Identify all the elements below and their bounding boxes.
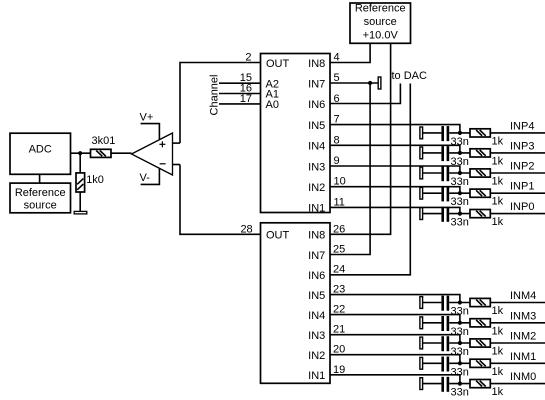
resistor 1k INM3 row <box>470 319 504 338</box>
wire connector to capacitor INM0 row <box>423 383 442 385</box>
wire mux pin row to INP1 filter junction <box>330 187 460 194</box>
connector pinhead INP1 row <box>420 187 423 199</box>
wire resistor to INP0 port <box>490 213 545 215</box>
wire capacitor to junction INM0 row <box>449 383 470 385</box>
wire ADC output to node <box>71 152 91 154</box>
capacitor 33n INP2 row <box>443 166 469 188</box>
wire mux pin row to INM0 filter junction <box>330 375 460 384</box>
svg-text:IN4: IN4 <box>308 310 325 322</box>
svg-text:Reference: Reference <box>15 187 66 199</box>
junction dot INM1 row <box>458 361 462 365</box>
wire resistor to INP2 port <box>490 172 545 174</box>
resistor 1k INP0 row <box>470 210 504 229</box>
wire mux pin row to INM3 filter junction <box>330 315 460 323</box>
svg-text:to DAC: to DAC <box>392 70 428 82</box>
wire capacitor to junction INP3 row <box>449 152 470 154</box>
svg-text:IN7: IN7 <box>308 250 325 262</box>
wire connector to capacitor INP2 row <box>423 172 442 174</box>
wire capacitor to junction INP2 row <box>449 172 470 174</box>
wire capacitor to junction INM4 row <box>449 302 470 304</box>
V+ label <box>140 112 160 140</box>
wire A2 pin 15 <box>219 82 261 84</box>
svg-text:source: source <box>24 200 57 212</box>
wire mux pin row to INM4 filter junction <box>330 295 460 303</box>
wire A0 pin 17 <box>219 103 261 105</box>
connector pinhead INP3 row <box>420 147 423 159</box>
connector pinhead INP0 row <box>420 208 423 220</box>
connector pinhead INP4 row <box>420 127 423 139</box>
svg-text:ADC: ADC <box>29 144 52 156</box>
svg-text:INM3: INM3 <box>510 310 536 322</box>
svg-text:2: 2 <box>245 52 251 64</box>
wire reference source to U1 IN8 pin 4 <box>330 43 370 62</box>
junction dot INM3 row <box>458 321 462 325</box>
junction dot INP0 row <box>458 212 462 216</box>
capacitor 33n INP0 row <box>443 207 469 229</box>
capacitor 33n INP4 row <box>443 126 469 148</box>
wire connector to capacitor INM2 row <box>423 342 442 344</box>
junction dot INP4 row <box>458 131 462 135</box>
resistor 1k INM0 row <box>470 380 504 399</box>
resistor 1k INM1 row <box>470 359 504 378</box>
wire +10V reference to U2 IN8 pin 26 <box>330 43 391 234</box>
wire capacitor to junction INP4 row <box>449 132 470 134</box>
svg-text:1k: 1k <box>492 366 504 378</box>
svg-text:33n: 33n <box>451 196 469 208</box>
svg-text:INM1: INM1 <box>510 351 536 363</box>
svg-text:3k01: 3k01 <box>92 135 116 147</box>
wire capacitor to junction INP1 row <box>449 192 470 194</box>
svg-text:IN3: IN3 <box>308 161 325 173</box>
resistor 1k0 <box>76 173 104 192</box>
resistor 1k INP1 row <box>470 189 504 208</box>
svg-text:OUT: OUT <box>266 230 290 242</box>
wire U1 IN7 pin 5 to connector <box>330 82 378 84</box>
svg-text:Reference: Reference <box>355 3 406 15</box>
wire connector to capacitor INM3 row <box>423 322 442 324</box>
svg-text:26: 26 <box>333 223 345 235</box>
wire mux pin row to INM2 filter junction <box>330 335 460 343</box>
svg-text:INM4: INM4 <box>510 290 536 302</box>
svg-text:A0: A0 <box>266 99 279 111</box>
svg-text:17: 17 <box>240 93 252 105</box>
resistor 1k INP3 row <box>470 149 504 168</box>
svg-text:OUT: OUT <box>266 58 290 70</box>
multiplexer U1 (top half) <box>261 54 331 215</box>
svg-text:source: source <box>364 16 397 28</box>
svg-text:V-: V- <box>140 172 151 184</box>
svg-text:IN3: IN3 <box>308 330 325 342</box>
junction dot INP3 row <box>458 151 462 155</box>
capacitor 33n INM2 row <box>443 336 469 358</box>
V- label <box>140 168 160 184</box>
wire connector to capacitor INP3 row <box>423 152 442 154</box>
junction dot INP1 row <box>458 191 462 195</box>
connector pinhead INM4 row <box>420 297 423 309</box>
svg-text:IN8: IN8 <box>308 58 325 70</box>
wire capacitor to junction INM1 row <box>449 362 470 364</box>
svg-text:33n: 33n <box>451 217 469 229</box>
connector pinhead IN7 <box>378 77 381 89</box>
wire 3k01 to op-amp <box>111 152 132 154</box>
wire node down to 1k0 <box>79 153 81 173</box>
svg-text:1k: 1k <box>492 155 504 167</box>
node junction dot <box>78 151 82 155</box>
wire A1 pin 16 <box>219 93 261 95</box>
svg-text:1k: 1k <box>492 305 504 317</box>
svg-text:IN6: IN6 <box>308 99 325 111</box>
svg-text:1k: 1k <box>492 196 504 208</box>
junction dot INM0 row <box>458 382 462 386</box>
wire to-DAC stub to U1 IN6 pin 6 <box>330 84 400 104</box>
wire ADC to reference source <box>39 174 41 183</box>
capacitor 33n INP3 row <box>443 146 469 168</box>
svg-text:IN2: IN2 <box>308 350 325 362</box>
svg-text:IN5: IN5 <box>308 120 325 132</box>
svg-text:1k: 1k <box>492 325 504 337</box>
svg-text:INP4: INP4 <box>510 120 534 132</box>
wire mux pin row to INP0 filter junction <box>330 207 460 213</box>
wire resistor to INM2 port <box>490 342 545 344</box>
wire resistor to INP4 port <box>490 132 545 134</box>
junction dot INM4 row <box>458 300 462 304</box>
svg-text:+10.0V: +10.0V <box>363 30 399 42</box>
connector pinhead INM1 row <box>420 357 423 369</box>
svg-text:INP2: INP2 <box>510 161 534 173</box>
wire mux pin row to INM1 filter junction <box>330 355 460 364</box>
capacitor 33n INP1 row <box>443 186 469 208</box>
svg-text:IN6: IN6 <box>308 270 325 282</box>
resistor 1k INP4 row <box>470 129 504 148</box>
svg-text:1k0: 1k0 <box>86 174 104 186</box>
resistor 3k01 <box>91 135 116 157</box>
resistor 1k INM4 row <box>470 298 504 317</box>
connector pinhead INM2 row <box>420 337 423 349</box>
svg-text:INP0: INP0 <box>510 201 534 213</box>
capacitor 33n INM1 row <box>443 357 469 379</box>
ADC reference source box <box>10 183 71 213</box>
wire connector to capacitor INP4 row <box>423 132 442 134</box>
wire IN7 node to U2 IN7 pin 25 <box>330 83 370 255</box>
ground <box>74 211 87 214</box>
capacitor 33n INM4 row <box>443 296 469 318</box>
connector pinhead INM0 row <box>420 378 423 390</box>
wire capacitor to junction INM2 row <box>449 342 470 344</box>
wire resistor to INM3 port <box>490 322 545 324</box>
junction dot IN7 node <box>368 81 372 85</box>
wire resistor to INM0 port <box>490 383 545 385</box>
svg-text:INP3: INP3 <box>510 140 534 152</box>
svg-text:1k: 1k <box>492 176 504 188</box>
svg-text:1k: 1k <box>492 346 504 358</box>
wire resistor to INM1 port <box>490 362 545 364</box>
wire op-amp + input to U1 OUT pin 2 <box>180 63 261 144</box>
Reference source +10.0V box <box>350 3 411 44</box>
wire mux pin row to INP2 filter junction <box>330 166 460 173</box>
svg-text:1k: 1k <box>492 216 504 228</box>
wire 1k0 to ground <box>79 192 81 211</box>
svg-text:IN4: IN4 <box>308 141 325 153</box>
capacitor 33n INM0 row <box>443 377 469 399</box>
svg-text:INP1: INP1 <box>510 181 534 193</box>
connector pinhead INM3 row <box>420 317 423 329</box>
svg-text:IN8: IN8 <box>308 230 325 242</box>
wire op-amp - input to U2 OUT pin 28 <box>180 165 261 235</box>
svg-text:INM2: INM2 <box>510 331 536 343</box>
ADC box <box>10 133 71 174</box>
svg-text:IN2: IN2 <box>308 182 325 194</box>
wire connector to capacitor INP1 row <box>423 192 442 194</box>
wire connector to capacitor INM1 row <box>423 362 442 364</box>
op-amp <box>132 133 181 175</box>
svg-text:Channel: Channel <box>209 75 221 116</box>
junction dot INM2 row <box>458 341 462 345</box>
resistor 1k INM2 row <box>470 339 504 358</box>
wire capacitor to junction INP0 row <box>449 213 470 215</box>
wire mux pin row to INP3 filter junction <box>330 145 460 153</box>
wire capacitor to junction INM3 row <box>449 322 470 324</box>
svg-text:IN7: IN7 <box>308 79 325 91</box>
svg-text:INM0: INM0 <box>510 371 536 383</box>
wire to-DAC bus to U2 IN6 pin 24 <box>330 84 410 275</box>
wire resistor to INP1 port <box>490 192 545 194</box>
svg-text:IN1: IN1 <box>308 370 325 382</box>
svg-text:IN1: IN1 <box>308 203 325 215</box>
wire connector to capacitor INP0 row <box>423 213 442 215</box>
multiplexer U2 (bottom half) <box>261 223 331 383</box>
capacitor 33n INM3 row <box>443 316 469 338</box>
wire connector to capacitor INM4 row <box>423 302 442 304</box>
svg-text:IN5: IN5 <box>308 290 325 302</box>
svg-text:25: 25 <box>333 244 345 256</box>
svg-text:28: 28 <box>240 223 252 235</box>
connector pinhead INP2 row <box>420 167 423 179</box>
svg-text:24: 24 <box>333 264 345 276</box>
junction dot INP2 row <box>458 171 462 175</box>
svg-text:1k: 1k <box>492 135 504 147</box>
wire mux pin row to INP4 filter junction <box>330 125 460 133</box>
svg-text:V+: V+ <box>140 112 154 124</box>
svg-text:1k: 1k <box>492 386 504 398</box>
wire resistor to INP3 port <box>490 152 545 154</box>
wire resistor to INM4 port <box>490 302 545 304</box>
resistor 1k INP2 row <box>470 169 504 188</box>
svg-text:33n: 33n <box>451 387 469 399</box>
